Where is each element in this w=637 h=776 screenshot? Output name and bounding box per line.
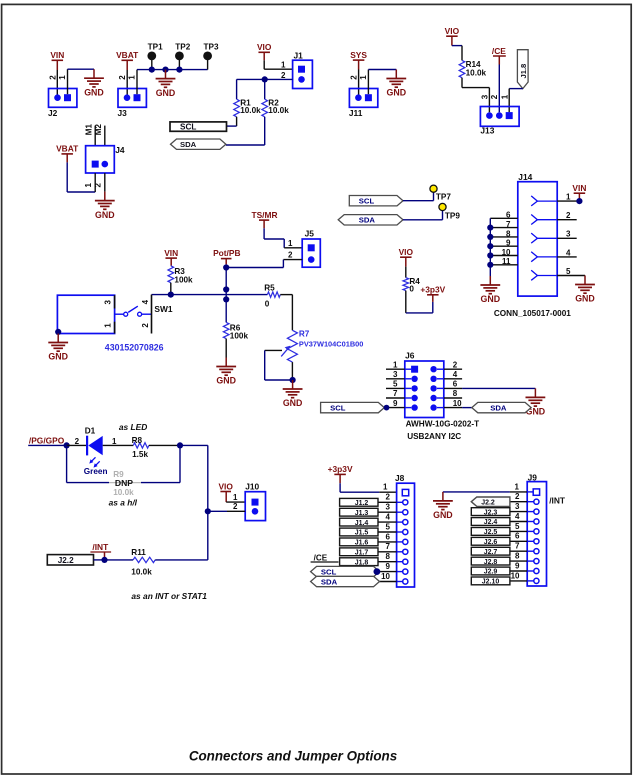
- resistor R4 0: [403, 277, 420, 294]
- svg-text:J13: J13: [480, 126, 494, 136]
- wire R4 to +3p3V: [405, 291, 407, 313]
- J8 pin 5: [397, 531, 403, 533]
- J6 pin 3: [386, 378, 405, 380]
- svg-text:J1.7: J1.7: [355, 550, 369, 557]
- net label /CE: [311, 554, 339, 563]
- svg-text:TP7: TP7: [436, 193, 451, 202]
- wire J10 pin 2: [227, 510, 245, 512]
- pin lead 3: [114, 295, 116, 308]
- svg-text:0: 0: [265, 299, 270, 308]
- svg-text:VIO: VIO: [257, 42, 272, 52]
- power +3p3V: [328, 464, 353, 483]
- junction: [177, 442, 183, 448]
- J8 pin 4: [397, 521, 403, 523]
- wire TS/MR to J5 pin 1: [263, 228, 265, 239]
- J14 pin 4: [557, 256, 577, 258]
- J6 pin 9: [386, 407, 405, 409]
- ground: [575, 276, 595, 304]
- svg-text:J1.8: J1.8: [519, 64, 528, 79]
- J14 pin 2: [557, 219, 577, 221]
- ground: [84, 69, 104, 97]
- J14 pin 11: [490, 264, 518, 266]
- svg-text:SDA: SDA: [180, 140, 197, 149]
- SW1 right lead: [151, 295, 153, 334]
- junction: [223, 286, 229, 292]
- power +3p3V: [420, 285, 445, 302]
- wire R3 to node: [170, 283, 172, 295]
- svg-text:Green: Green: [84, 467, 108, 476]
- junction dots on bus: [149, 67, 155, 73]
- svg-text:SCL: SCL: [359, 197, 375, 206]
- svg-text:2: 2: [118, 75, 127, 80]
- svg-text:GND: GND: [156, 88, 176, 98]
- svg-text:7: 7: [386, 542, 391, 551]
- svg-text:AWHW-10G-0202-T: AWHW-10G-0202-T: [406, 419, 480, 428]
- svg-text:6: 6: [506, 211, 511, 220]
- net flag J1.8: [340, 558, 378, 567]
- J9 pin 2: [527, 501, 533, 503]
- DNP bypass R9: [66, 445, 68, 482]
- svg-text:GND: GND: [433, 510, 453, 520]
- pin lead 1: [114, 322, 116, 334]
- J8 pin 2: [397, 501, 403, 503]
- svg-text:1: 1: [514, 483, 519, 492]
- net flag J2.4: [471, 518, 510, 527]
- wire J11 pin 1 to GND: [367, 70, 369, 95]
- wire VIO to R4: [405, 267, 407, 278]
- svg-text:2: 2: [288, 250, 293, 259]
- connector J11: [349, 89, 378, 118]
- svg-text:J1.6: J1.6: [355, 540, 369, 547]
- wire R1 to SCL: [236, 117, 238, 126]
- left bus to GND: [489, 218, 491, 276]
- J14 pin 3: [557, 237, 577, 239]
- svg-text:as LED: as LED: [119, 422, 147, 432]
- junction: [64, 442, 70, 448]
- J14 pin 7: [490, 227, 518, 229]
- net flag J1.4: [340, 518, 378, 527]
- svg-text:R5: R5: [264, 284, 275, 293]
- svg-text:GND: GND: [283, 398, 303, 408]
- svg-text:GND: GND: [481, 294, 501, 304]
- svg-text:TP1: TP1: [148, 42, 163, 51]
- svg-text:100k: 100k: [174, 275, 193, 284]
- svg-text:8: 8: [515, 552, 520, 561]
- net flag J2.9: [471, 567, 510, 576]
- junction: [223, 264, 229, 270]
- svg-text:3: 3: [103, 300, 112, 305]
- svg-text:7: 7: [506, 220, 511, 229]
- svg-text:SW1: SW1: [154, 304, 172, 314]
- svg-text:8: 8: [506, 229, 511, 238]
- power VBAT: [56, 144, 79, 163]
- svg-text:GND: GND: [84, 87, 104, 97]
- wire /PG/GPO: [28, 444, 66, 446]
- wire J5 pin 2 to Pot/PB node: [283, 259, 302, 261]
- net flag J2.2 (pointed): [471, 497, 510, 506]
- J6 pin 7: [386, 397, 405, 399]
- J8 pin 1: [402, 489, 408, 495]
- svg-text:10.0k: 10.0k: [268, 106, 289, 115]
- J6 pin 2: [444, 368, 462, 370]
- svg-text:2: 2: [453, 360, 458, 369]
- svg-text:GND: GND: [216, 376, 236, 386]
- svg-text:TS/MR: TS/MR: [251, 210, 277, 220]
- svg-text:+3p3V: +3p3V: [420, 285, 445, 295]
- svg-text:J2.6: J2.6: [484, 539, 498, 546]
- net label TS/MR: [251, 210, 277, 228]
- svg-text:SDA: SDA: [359, 216, 376, 225]
- svg-text:+3p3V: +3p3V: [328, 464, 353, 474]
- svg-text:J1.4: J1.4: [355, 520, 369, 527]
- svg-text:2: 2: [141, 323, 150, 328]
- J8 pin 6: [397, 541, 403, 543]
- J14 pin 1: [557, 200, 577, 202]
- svg-text:10.0k: 10.0k: [240, 106, 261, 115]
- svg-text:5: 5: [566, 267, 571, 276]
- connector J6: [405, 350, 444, 417]
- svg-text:VIN: VIN: [572, 183, 586, 193]
- wire /CE to J13 pin 2: [498, 65, 500, 113]
- power VIN: [572, 183, 586, 201]
- net flag J1.7: [340, 548, 378, 557]
- svg-text:6: 6: [453, 380, 458, 389]
- junction: [101, 557, 107, 563]
- svg-text:1: 1: [233, 493, 238, 502]
- wire J2 pin 1 to GND: [67, 69, 69, 94]
- svg-text:7: 7: [393, 389, 398, 398]
- power VIO at J10: [218, 482, 233, 503]
- ground: [216, 358, 236, 386]
- J9 pin 8: [527, 560, 533, 562]
- svg-text:3: 3: [480, 94, 489, 99]
- svg-text:J5: J5: [305, 228, 315, 238]
- svg-text:D1: D1: [85, 426, 96, 435]
- svg-text:SCL: SCL: [330, 403, 346, 412]
- svg-text:VIO: VIO: [218, 482, 233, 492]
- connector J10: [245, 482, 265, 521]
- svg-text:SYS: SYS: [350, 50, 367, 60]
- svg-text:Connectors and Jumper Options: Connectors and Jumper Options: [189, 749, 397, 764]
- LED D1 Green: [84, 426, 108, 475]
- power VIO: [257, 42, 272, 60]
- svg-text:9: 9: [506, 239, 511, 248]
- svg-text:9: 9: [386, 562, 391, 571]
- J9 pin 3: [527, 511, 533, 513]
- junction: [168, 292, 174, 298]
- wiper wire: [265, 349, 282, 351]
- svg-text:2: 2: [386, 493, 391, 502]
- net flag J1.6: [340, 538, 378, 547]
- net flag J2.6: [471, 537, 510, 546]
- net label SCL: [170, 122, 227, 132]
- ground: [283, 380, 303, 408]
- svg-text:/CE: /CE: [314, 554, 328, 563]
- net flag J1.3: [340, 508, 378, 517]
- wire SYS to J11 pin 2: [358, 70, 360, 98]
- svg-text:R7: R7: [299, 330, 310, 339]
- svg-text:1.5k: 1.5k: [132, 450, 148, 459]
- connector J1: [293, 51, 313, 89]
- svg-text:R11: R11: [131, 548, 146, 557]
- connector J2: [48, 89, 77, 118]
- svg-text:10.0k: 10.0k: [466, 68, 487, 77]
- net label /CE: [492, 46, 506, 64]
- wire R7 bottom: [291, 362, 293, 380]
- svg-text:4: 4: [386, 513, 391, 522]
- power VIO: [445, 26, 460, 46]
- svg-text:J2.2: J2.2: [481, 499, 495, 506]
- net flag J2.5: [471, 528, 510, 537]
- svg-text:/INT: /INT: [549, 496, 566, 506]
- svg-text:GND: GND: [387, 88, 407, 98]
- svg-text:J10: J10: [245, 482, 259, 492]
- wire VBAT to J4 pin 1: [66, 162, 68, 192]
- resistor R1 10.0k: [234, 98, 261, 117]
- svg-text:VBAT: VBAT: [116, 50, 139, 60]
- wire J6 pin 6 to GND: [462, 387, 535, 389]
- J14 pin 8: [490, 236, 518, 238]
- test point TP1: [147, 42, 163, 69]
- J9 pin 4: [527, 521, 533, 523]
- svg-text:2: 2: [490, 94, 499, 99]
- svg-text:DNP: DNP: [115, 478, 133, 488]
- svg-text:Pot/PB: Pot/PB: [213, 248, 240, 258]
- switch contacts: [115, 306, 152, 316]
- junction: [576, 198, 582, 204]
- svg-text:1: 1: [127, 75, 136, 80]
- svg-text:GND: GND: [95, 210, 115, 220]
- connector J4: [86, 145, 125, 173]
- J6 pin 6: [444, 387, 462, 389]
- svg-text:J1.2: J1.2: [355, 500, 369, 507]
- svg-text:J2.2: J2.2: [58, 556, 74, 565]
- svg-text:J1.8: J1.8: [355, 559, 369, 566]
- resistor R9 DNP 10.0k: [113, 470, 134, 497]
- wire J4 pin 2 to GND: [104, 173, 106, 192]
- svg-text:2: 2: [233, 502, 238, 511]
- svg-text:1: 1: [112, 437, 117, 446]
- svg-text:J3: J3: [118, 108, 128, 118]
- wire R6 to GND: [225, 339, 227, 358]
- resistor R3 100k: [168, 266, 193, 285]
- svg-text:3: 3: [393, 370, 398, 379]
- svg-text:5: 5: [386, 522, 391, 531]
- test point TP3: [203, 42, 219, 69]
- svg-text:8: 8: [386, 552, 391, 561]
- svg-text:4: 4: [515, 512, 520, 521]
- net flag SCL at J8 pin 9: [311, 566, 380, 576]
- svg-text:10: 10: [502, 248, 511, 257]
- connector J3: [118, 89, 147, 118]
- J6 pin 4: [444, 378, 462, 380]
- resistor R14 10.0k: [459, 60, 486, 78]
- svg-text:VIN: VIN: [164, 248, 178, 258]
- svg-text:2: 2: [75, 437, 80, 446]
- net flag J1.2: [340, 498, 378, 507]
- power VBAT: [116, 50, 139, 70]
- wire J14 pin 5 to GND: [584, 275, 586, 278]
- wire J1 pin 2: [265, 78, 293, 80]
- svg-text:/PG/GPO: /PG/GPO: [29, 435, 65, 445]
- power SYS: [350, 50, 367, 70]
- test point TP7: [430, 185, 451, 201]
- wire J3 pin 1 to test point bus: [136, 70, 138, 95]
- ground: [433, 492, 453, 520]
- svg-text:1: 1: [383, 483, 388, 492]
- svg-text:J2.8: J2.8: [484, 559, 498, 566]
- svg-text:1: 1: [566, 193, 571, 202]
- svg-text:6: 6: [386, 532, 391, 541]
- svg-text:1: 1: [58, 75, 67, 80]
- svg-text:J4: J4: [115, 145, 125, 155]
- potentiometer R7 PV37W104C01B00: [287, 330, 363, 363]
- svg-text:VIO: VIO: [399, 247, 414, 257]
- J9 pin 6: [527, 540, 533, 542]
- junction: [384, 405, 390, 411]
- svg-text:VBAT: VBAT: [56, 144, 79, 154]
- svg-text:SCL: SCL: [321, 567, 337, 576]
- svg-text:2: 2: [281, 71, 286, 80]
- J8 pin 3: [397, 511, 403, 513]
- power VIO: [399, 247, 414, 267]
- wire VBAT to J3 pin 2: [126, 70, 128, 98]
- svg-text:3: 3: [566, 230, 571, 239]
- net flag J2.8: [471, 557, 510, 566]
- wire R14 to J13 pin 3: [461, 78, 463, 88]
- J14 pin 5: [557, 275, 585, 277]
- J8 pin 10: [397, 581, 403, 583]
- svg-text:4: 4: [141, 299, 150, 304]
- svg-text:10: 10: [453, 399, 462, 408]
- junction: [374, 568, 381, 575]
- svg-text:M1: M1: [85, 124, 94, 136]
- svg-text:9: 9: [515, 561, 520, 570]
- J6 pin 10: [444, 407, 462, 409]
- svg-text:TP9: TP9: [445, 212, 460, 221]
- svg-text:CONN_105017-0001: CONN_105017-0001: [494, 309, 571, 318]
- net label SDA: [171, 139, 226, 149]
- connector J9: [527, 472, 546, 586]
- svg-text:1: 1: [359, 75, 368, 80]
- net flag J2.7: [471, 547, 510, 556]
- J9 pin 1: [533, 489, 539, 495]
- svg-text:J1.5: J1.5: [355, 530, 369, 537]
- svg-text:J14: J14: [518, 172, 532, 182]
- svg-text:10: 10: [511, 571, 520, 580]
- wire SCL to TP7: [403, 200, 434, 202]
- svg-text:1: 1: [393, 360, 398, 369]
- svg-text:TP2: TP2: [175, 42, 190, 51]
- net flag SCL at J6 pin 9: [321, 402, 385, 412]
- svg-text:SCL: SCL: [180, 123, 196, 132]
- svg-text:J2.10: J2.10: [482, 579, 500, 586]
- svg-text:J1.3: J1.3: [355, 510, 369, 517]
- resistor R8 1.5k: [132, 436, 149, 459]
- wire +3p3V to J8 pin 1: [339, 483, 341, 492]
- test point TP9: [439, 203, 460, 220]
- ground: [480, 276, 500, 304]
- switch SW1 body: [57, 295, 114, 333]
- J14 pin 10: [490, 255, 518, 257]
- wire Pot/PB node down: [225, 264, 227, 322]
- svg-text:J2: J2: [48, 108, 58, 118]
- svg-text:0: 0: [409, 285, 414, 294]
- net flag SDA at J6 pin 10: [462, 407, 472, 409]
- svg-text:5: 5: [515, 522, 520, 531]
- svg-text:VIO: VIO: [445, 26, 460, 36]
- svg-text:as a h/l: as a h/l: [109, 498, 138, 508]
- wiper loop: [264, 350, 266, 380]
- svg-text:4: 4: [453, 370, 458, 379]
- resistor R11 10.0k: [131, 548, 155, 576]
- svg-text:1: 1: [288, 239, 293, 248]
- J14 pin 6: [490, 217, 518, 219]
- svg-text:GND: GND: [575, 294, 595, 304]
- svg-text:J2.5: J2.5: [484, 529, 498, 536]
- net flag J2.2: [47, 555, 93, 565]
- wire J1.8 to J13 pin 1: [509, 88, 523, 90]
- svg-text:GND: GND: [48, 352, 68, 362]
- net flag SDA: [338, 215, 403, 225]
- connector J8: [395, 473, 415, 587]
- svg-text:J1: J1: [294, 51, 304, 61]
- svg-text:10.0k: 10.0k: [131, 567, 152, 576]
- resistor R2 10.0k: [262, 98, 289, 117]
- svg-text:TP3: TP3: [203, 42, 218, 51]
- wire M1 pin: [94, 126, 96, 146]
- svg-text:VIN: VIN: [50, 50, 64, 60]
- net label /INT: [90, 542, 111, 560]
- svg-text:J2.9: J2.9: [484, 569, 498, 576]
- junction: [205, 508, 211, 514]
- svg-text:2: 2: [515, 492, 520, 501]
- junction: [223, 296, 229, 302]
- junction: [262, 76, 268, 82]
- svg-text:430152070826: 430152070826: [105, 343, 164, 353]
- svg-text:10: 10: [381, 572, 390, 581]
- J8 pin 9: [397, 571, 403, 573]
- svg-text:1: 1: [103, 323, 112, 328]
- svg-text:1: 1: [281, 61, 286, 70]
- J6 pin 5: [386, 387, 405, 389]
- J9 pin 10: [527, 580, 533, 582]
- svg-text:5: 5: [393, 380, 398, 389]
- wire VIO to J1 pin 1: [263, 60, 265, 69]
- svg-text:9: 9: [393, 399, 398, 408]
- svg-text:2: 2: [566, 211, 571, 220]
- svg-text:11: 11: [502, 257, 511, 266]
- svg-text:J11: J11: [349, 108, 363, 118]
- svg-text:8: 8: [453, 389, 458, 398]
- svg-text:6: 6: [515, 532, 520, 541]
- ground: [386, 70, 406, 98]
- svg-text:100k: 100k: [230, 331, 249, 340]
- ground: [48, 334, 68, 362]
- J6 pin 1: [386, 368, 405, 370]
- svg-text:/CE: /CE: [492, 46, 506, 56]
- J8 pin 7: [397, 551, 403, 553]
- wire R5 to R7: [280, 294, 292, 296]
- svg-text:J8: J8: [395, 473, 405, 483]
- svg-text:2: 2: [49, 75, 58, 80]
- net flag SDA at J8 pin 10: [311, 576, 380, 586]
- net flag J1.8 (vertical): [517, 50, 528, 89]
- J6 pin 8: [444, 397, 462, 399]
- wire VIO to R14: [452, 45, 462, 47]
- power VIN: [164, 248, 178, 266]
- resistor R5 0: [264, 284, 280, 309]
